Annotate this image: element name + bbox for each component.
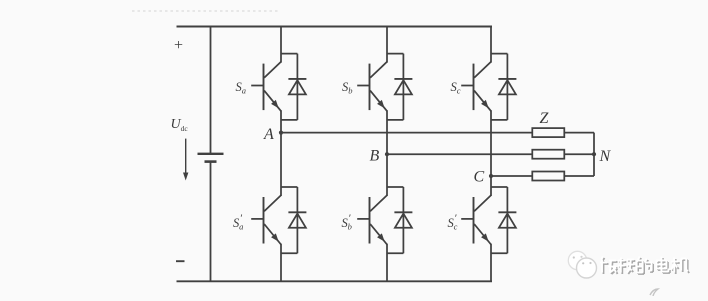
resistor Z phase B xyxy=(532,150,564,159)
svg-text:Z: Z xyxy=(540,110,550,127)
transistor Sc xyxy=(461,62,491,111)
node N xyxy=(592,152,596,156)
resistor Z phase A xyxy=(532,128,564,137)
svg-text:N: N xyxy=(599,148,612,165)
svg-text:S′c: S′c xyxy=(448,213,458,232)
svg-text:S′a: S′a xyxy=(233,213,243,232)
wire leg c node C to lower cell xyxy=(490,176,492,196)
wire leg a from top rail xyxy=(280,26,282,63)
transistor Sb xyxy=(357,62,387,111)
watermark logo xyxy=(568,251,689,278)
svg-text:B: B xyxy=(370,148,380,165)
wire leg c to bottom rail xyxy=(490,244,492,282)
label Sa xyxy=(236,80,247,96)
svg-text:C: C xyxy=(474,168,485,185)
battery Udc source xyxy=(198,27,224,282)
wire leg a node A to lower cell xyxy=(280,133,282,196)
wire phase C to neutral xyxy=(564,175,594,177)
node C xyxy=(489,174,493,178)
arrow Udc reference xyxy=(183,139,188,181)
wire leg c to node C xyxy=(490,110,492,176)
transistor Sb' xyxy=(357,195,387,244)
label - xyxy=(176,260,185,262)
label + xyxy=(174,37,183,54)
label C xyxy=(474,168,485,185)
diode Db (upper freewheel) xyxy=(387,54,412,120)
wire leg a to bottom rail xyxy=(280,244,282,282)
label Z xyxy=(540,110,550,127)
diode Da (upper freewheel) xyxy=(281,54,306,120)
label Sb xyxy=(342,80,353,96)
node B xyxy=(385,152,389,156)
wire leg b from top rail xyxy=(386,26,388,63)
label B xyxy=(370,148,380,165)
transistor Sa' xyxy=(251,195,281,244)
wire phase B line xyxy=(387,153,532,155)
resistor Z phase C xyxy=(532,172,564,181)
label N xyxy=(599,148,612,165)
wire bottom DC rail xyxy=(177,280,493,282)
label A xyxy=(263,126,274,143)
label Sc' xyxy=(448,213,458,232)
wire leg b node B to lower cell xyxy=(386,154,388,196)
wire leg b to node B xyxy=(386,110,388,154)
svg-text:S′b: S′b xyxy=(342,213,352,232)
svg-text:+: + xyxy=(174,37,183,54)
transistor Sa xyxy=(251,62,281,111)
wire leg a to node A xyxy=(280,110,282,132)
wire leg b to bottom rail xyxy=(386,244,388,282)
node A xyxy=(279,131,283,135)
diode Da' (lower freewheel) xyxy=(281,187,306,253)
label Sa' xyxy=(233,213,243,232)
diode Db' (lower freewheel) xyxy=(387,187,412,253)
diode Dc' (lower freewheel) xyxy=(491,187,516,253)
wire phase B to neutral xyxy=(564,153,594,155)
wire leg c from top rail xyxy=(490,26,492,63)
wire phase A line xyxy=(281,132,532,134)
label Sb' xyxy=(342,213,352,232)
wire neutral bus vertical xyxy=(593,133,595,176)
label Udc xyxy=(171,117,189,133)
wire phase A to neutral xyxy=(564,132,594,134)
wire top DC rail xyxy=(177,26,493,28)
svg-text:A: A xyxy=(263,126,274,143)
transistor Sc' xyxy=(461,195,491,244)
label Sc xyxy=(451,80,461,96)
wire phase C line xyxy=(491,175,532,177)
diode Dc (upper freewheel) xyxy=(491,54,516,120)
